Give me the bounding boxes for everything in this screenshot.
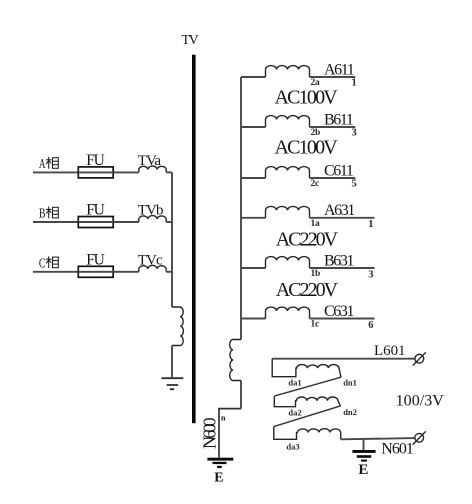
label AC100V winding group 1 bbox=[275, 87, 339, 109]
label AC220V winding group 2 bbox=[276, 279, 339, 301]
label pin 3 row B611 bbox=[352, 127, 357, 138]
label B631 bbox=[324, 252, 354, 269]
wire secondary common vertical bbox=[240, 77, 242, 340]
wire secondary row A611 from bus bbox=[241, 76, 266, 78]
wire secondary row C611 from bus bbox=[241, 177, 266, 179]
winding C631 bbox=[266, 307, 310, 318]
winding B611 bbox=[266, 116, 310, 127]
svg-text:A631: A631 bbox=[324, 202, 355, 219]
wire secondary row C631 from bus bbox=[241, 318, 266, 320]
svg-text:TVa: TVa bbox=[138, 153, 162, 169]
svg-text:FU: FU bbox=[86, 251, 104, 268]
label pin 1 row A631 bbox=[368, 219, 373, 230]
label terminal 1a bbox=[311, 219, 321, 229]
wire L601 lead bbox=[272, 358, 415, 360]
winding A611 bbox=[266, 66, 310, 77]
svg-text:1: 1 bbox=[368, 219, 373, 230]
label FU phase C bbox=[86, 251, 104, 268]
wire phase B left segment bbox=[33, 221, 78, 223]
label TVa bbox=[138, 153, 162, 169]
label terminal 2a bbox=[311, 78, 321, 88]
wire secondary row C611 terminal lead bbox=[310, 177, 356, 179]
label AC220V winding group 1 bbox=[276, 228, 339, 250]
svg-text:B611: B611 bbox=[324, 111, 354, 128]
wire phase B middle segment bbox=[113, 221, 139, 223]
wire dn1 to da2 bbox=[274, 377, 341, 396]
svg-text:TVc: TVc bbox=[138, 252, 163, 268]
wire phase C middle segment bbox=[113, 271, 139, 273]
label B611 bbox=[324, 111, 354, 128]
wire phase C left segment bbox=[33, 271, 78, 273]
label FU phase A bbox=[86, 152, 104, 169]
svg-text:1a: 1a bbox=[311, 219, 321, 229]
wire phase B to primary bus bbox=[166, 221, 172, 223]
node n bbox=[221, 414, 226, 423]
svg-text:100/3V: 100/3V bbox=[396, 393, 445, 410]
wire secondary neutral jog to ground bbox=[219, 409, 241, 458]
label dn2 bbox=[343, 407, 357, 417]
svg-text:E: E bbox=[358, 462, 368, 478]
svg-text:3: 3 bbox=[368, 269, 373, 280]
wire secondary row A631 terminal lead bbox=[310, 217, 375, 219]
winding TVc bbox=[139, 265, 166, 271]
svg-text:AC220V: AC220V bbox=[276, 228, 339, 250]
svg-text:n: n bbox=[221, 414, 226, 423]
label A phase CJK bbox=[39, 157, 58, 172]
svg-text:FU: FU bbox=[86, 202, 104, 219]
winding B631 bbox=[266, 257, 310, 268]
svg-text:dn2: dn2 bbox=[343, 407, 357, 417]
svg-text:AC220V: AC220V bbox=[276, 279, 339, 301]
label pin 5 row C611 bbox=[352, 178, 357, 189]
wire N601 ground tap bbox=[363, 439, 365, 450]
winding TVa bbox=[139, 166, 166, 172]
fuse FU phase A bbox=[78, 167, 113, 178]
ground E open-delta bbox=[352, 450, 375, 462]
svg-text:L601: L601 bbox=[374, 343, 405, 359]
label pin 6 row C631 bbox=[368, 320, 373, 331]
label FU phase B bbox=[86, 202, 104, 219]
wire secondary row B631 from bus bbox=[241, 267, 266, 269]
label E secondary neutral ground bbox=[214, 470, 223, 485]
winding C611 bbox=[266, 167, 310, 178]
label dn1 bbox=[343, 377, 357, 387]
busbar TV bbox=[192, 55, 196, 424]
winding TVb bbox=[139, 216, 166, 222]
svg-text:B631: B631 bbox=[324, 252, 354, 269]
svg-text:AC100V: AC100V bbox=[275, 136, 339, 158]
wire secondary row C631 terminal lead bbox=[310, 318, 375, 320]
label A611 bbox=[324, 61, 355, 78]
svg-text:AC100V: AC100V bbox=[275, 87, 339, 109]
label TVb bbox=[138, 203, 163, 219]
net N600 bbox=[199, 417, 219, 449]
svg-text:C631: C631 bbox=[324, 303, 354, 320]
wire primary neutral to ground bbox=[171, 346, 173, 378]
label E open-delta ground bbox=[358, 462, 368, 478]
label pin 1 row A611 bbox=[352, 77, 357, 88]
wire primary common vertical bbox=[171, 172, 173, 307]
wire N601 lead bbox=[341, 438, 415, 439]
wire secondary row B611 terminal lead bbox=[310, 126, 356, 128]
fuse FU phase B bbox=[78, 217, 113, 228]
winding secondary neutral coil bbox=[230, 340, 241, 381]
label A631 bbox=[324, 202, 355, 219]
wire phase A middle segment bbox=[113, 171, 139, 173]
winding da2-dn2 bbox=[274, 396, 340, 407]
svg-text:N601: N601 bbox=[381, 441, 414, 458]
wire secondary row B611 from bus bbox=[241, 126, 266, 128]
label da1 bbox=[288, 377, 301, 387]
label TV bbox=[182, 33, 199, 48]
label terminal 1c bbox=[311, 320, 320, 330]
wire secondary row A611 terminal lead bbox=[310, 76, 356, 78]
wire secondary row A631 from bus bbox=[241, 217, 266, 219]
wire phase C to primary bus bbox=[166, 271, 172, 273]
winding A631 bbox=[266, 206, 310, 217]
terminal L601 bbox=[413, 352, 426, 365]
label terminal 2b bbox=[311, 128, 321, 138]
wire secondary neutral below coil bbox=[240, 381, 242, 409]
ground E secondary neutral bbox=[207, 458, 233, 468]
svg-text:C611: C611 bbox=[324, 162, 354, 179]
label da2 bbox=[288, 407, 301, 417]
wire phase A left segment bbox=[33, 171, 78, 173]
label C611 bbox=[324, 162, 354, 179]
svg-text:da3: da3 bbox=[286, 441, 299, 451]
svg-text:1: 1 bbox=[352, 77, 357, 88]
wire phase A to primary bus bbox=[166, 171, 172, 173]
fuse FU phase C bbox=[78, 266, 113, 277]
svg-text:N600: N600 bbox=[199, 417, 219, 449]
label 100/3V bbox=[396, 393, 445, 410]
label TVc bbox=[138, 252, 163, 268]
svg-text:6: 6 bbox=[368, 320, 373, 331]
wire secondary row B631 terminal lead bbox=[310, 267, 375, 269]
label da3 bbox=[286, 441, 299, 451]
svg-text:dn1: dn1 bbox=[343, 377, 357, 387]
svg-text:A611: A611 bbox=[324, 61, 355, 78]
svg-text:C: C bbox=[39, 256, 46, 271]
label terminal 2c bbox=[311, 179, 320, 189]
svg-text:3: 3 bbox=[352, 127, 357, 138]
svg-text:E: E bbox=[214, 470, 223, 485]
svg-text:da1: da1 bbox=[288, 377, 301, 387]
svg-text:A: A bbox=[39, 157, 46, 172]
label L601 bbox=[374, 343, 405, 359]
ground primary neutral bbox=[162, 378, 184, 389]
label C phase CJK bbox=[39, 256, 58, 271]
label B phase CJK bbox=[39, 207, 58, 222]
svg-text:TV: TV bbox=[182, 33, 199, 48]
svg-text:5: 5 bbox=[352, 178, 357, 189]
label C631 bbox=[324, 303, 354, 320]
label N601 bbox=[381, 441, 414, 458]
svg-text:1b: 1b bbox=[311, 269, 321, 279]
label terminal 1b bbox=[311, 269, 321, 279]
svg-text:B: B bbox=[39, 207, 46, 222]
winding da3 bbox=[274, 427, 341, 440]
svg-text:TVb: TVb bbox=[138, 203, 163, 219]
svg-text:da2: da2 bbox=[288, 407, 301, 417]
label AC100V winding group 2 bbox=[275, 136, 339, 158]
winding da1-dn1 bbox=[272, 359, 341, 378]
svg-text:1c: 1c bbox=[311, 320, 320, 330]
winding TV primary neutral coil bbox=[172, 307, 183, 346]
label pin 3 row B631 bbox=[368, 269, 373, 280]
svg-text:2c: 2c bbox=[311, 179, 320, 189]
svg-text:FU: FU bbox=[86, 152, 104, 169]
wire dn2 to da3 bbox=[274, 406, 341, 427]
terminal N601 bbox=[413, 431, 426, 444]
